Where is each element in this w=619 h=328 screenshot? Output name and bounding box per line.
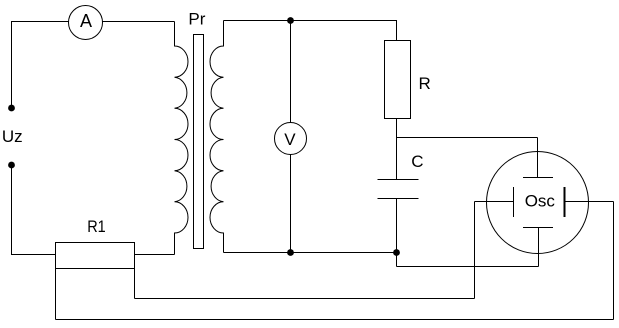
transformer T1 primary winding bbox=[175, 22, 189, 255]
svg-text:Osc: Osc bbox=[525, 192, 556, 211]
wire R1 right to primary winding bottom bbox=[135, 254, 175, 256]
wire R bottom lead down to C bbox=[396, 119, 398, 180]
node C bottom junction bbox=[393, 249, 400, 256]
wire second bottom run bbox=[135, 298, 475, 300]
wire vertical up to Osc left plate lead bbox=[474, 202, 476, 299]
oscilloscope top deflection plate bbox=[523, 177, 553, 179]
ammeter A body bbox=[69, 6, 103, 40]
wire bottom-most run bbox=[56, 319, 614, 321]
svg-text:Pr: Pr bbox=[188, 10, 205, 29]
resistor R body bbox=[385, 41, 411, 119]
node secondary top junction bbox=[287, 17, 294, 24]
transformer T1 secondary winding bbox=[210, 21, 224, 253]
wire right vertical up to Osc right plate lead bbox=[613, 202, 615, 320]
wire R1 right tap down bbox=[134, 269, 136, 299]
resistor R1 body bbox=[56, 243, 135, 269]
node Uz top terminal bbox=[8, 105, 15, 112]
wire R1 left tap down bbox=[55, 269, 57, 320]
wire lower-left from Uz bottom terminal to R1 bbox=[12, 165, 56, 255]
oscilloscope right deflection plate bbox=[564, 187, 566, 217]
svg-text:R: R bbox=[419, 74, 431, 93]
node Uz bottom terminal bbox=[8, 162, 15, 169]
svg-text:V: V bbox=[284, 130, 296, 149]
svg-text:R1: R1 bbox=[87, 217, 106, 236]
wire voltmeter branch vertical bbox=[290, 21, 292, 253]
wire secondary bottom run bbox=[224, 252, 397, 254]
voltmeter V body bbox=[275, 123, 307, 155]
wire left vertical top + primary top run bbox=[12, 22, 175, 109]
wire C bottom lead down bbox=[396, 199, 398, 267]
capacitor C plates bbox=[378, 180, 419, 199]
node voltmeter bottom junction bbox=[287, 249, 294, 256]
oscilloscope bottom deflection plate bbox=[523, 227, 553, 229]
oscilloscope Osc body bbox=[487, 152, 589, 254]
svg-text:Uz: Uz bbox=[2, 127, 23, 146]
wire secondary top run to R bbox=[224, 21, 397, 41]
svg-text:A: A bbox=[80, 11, 92, 31]
wire Osc right plate lead bbox=[566, 201, 614, 203]
wire Osc top plate lead bbox=[537, 138, 539, 178]
wire Osc left plate lead bbox=[475, 201, 514, 203]
transformer T1 core bbox=[194, 35, 204, 249]
oscilloscope left deflection plate bbox=[513, 187, 515, 217]
svg-text:C: C bbox=[411, 152, 423, 171]
wire Osc bottom plate lead bbox=[538, 228, 540, 267]
wire to Osc bottom plate bbox=[397, 266, 539, 268]
wire branch to Osc top plate bbox=[397, 137, 538, 139]
